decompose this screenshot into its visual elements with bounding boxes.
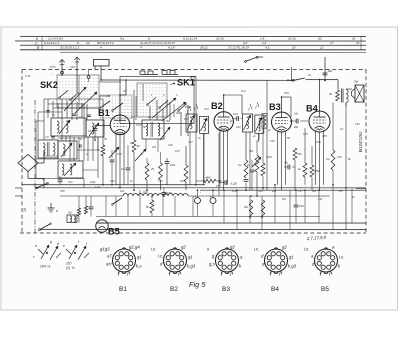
SK1 drop wires	[149, 106, 151, 120]
svg-text:B5: B5	[108, 226, 120, 236]
svg-text:C13: C13	[241, 90, 246, 93]
svg-text:C49: C49	[170, 163, 175, 167]
svg-text:1,0: 1,0	[262, 41, 267, 45]
cap C45	[294, 204, 299, 206]
junction dots	[100, 79, 102, 81]
B3 plate wire	[281, 97, 283, 112]
svg-text:20k: 20k	[293, 126, 299, 129]
wire x246 down	[245, 132, 247, 160]
svg-text:15.16.: 15.16.	[288, 36, 297, 40]
svg-text:17,13,76,,18,19: 17,13,76,,18,19	[228, 45, 249, 49]
dashed border bottom	[20, 232, 366, 234]
table line 4	[20, 49, 366, 51]
coil box A	[51, 118, 86, 136]
svg-text:d: d	[57, 242, 59, 246]
svg-text:g2,g4: g2,g4	[129, 244, 140, 249]
pickup diamond	[18, 154, 38, 171]
res R17	[293, 148, 297, 160]
svg-text:13.16.: 13.16.	[216, 37, 225, 41]
svg-text:•: •	[305, 185, 306, 188]
padder C49	[166, 158, 168, 161]
svg-text:C45: C45	[299, 205, 304, 208]
res R18	[303, 163, 307, 177]
A winding b	[66, 121, 68, 133]
svg-text:18,12: 18,12	[200, 46, 208, 50]
B2 plate wire	[223, 95, 225, 112]
svg-text:49,14: 49,14	[185, 106, 192, 109]
svg-text:SK2: SK2	[40, 80, 58, 90]
res R28	[261, 200, 265, 218]
cap C40	[89, 206, 94, 208]
svg-text:g2: g2	[181, 244, 186, 249]
right edge tick	[356, 188, 366, 190]
svg-text:B2: B2	[211, 101, 223, 111]
dashed border right	[365, 70, 367, 234]
svg-text:C33: C33	[303, 133, 308, 136]
left block verticals	[43, 99, 45, 140]
osc trimmer	[160, 127, 170, 140]
svg-text:0n8: 0n8	[176, 112, 181, 115]
svg-text:ƒ: ƒ	[248, 107, 250, 111]
grid cap C8	[93, 127, 98, 129]
svg-text:g1: g1	[137, 254, 142, 259]
C core	[47, 142, 49, 156]
osc box wires	[145, 139, 147, 150]
svg-text:11,16,17,21,8,12,13,15,17: 11,16,17,21,8,12,13,15,17	[140, 41, 175, 45]
svg-text:C8: C8	[88, 129, 92, 133]
res block right	[262, 114, 267, 129]
wire down from top cap	[324, 57, 326, 80]
E winding b	[70, 164, 72, 175]
bus B y187.8	[36, 187, 366, 189]
svg-text:C47: C47	[318, 198, 323, 201]
svg-text:20: 20	[291, 45, 296, 49]
coil box B	[86, 120, 104, 137]
rectifier B5 bulb	[96, 220, 108, 232]
svg-text:+: +	[194, 195, 196, 199]
wire drop x291	[290, 67, 292, 80]
trimmer C14	[135, 149, 146, 161]
svg-text:68,19,14,7.2: 68,19,14,7.2	[97, 41, 114, 45]
cap C24	[250, 169, 255, 171]
IFT2 box a	[242, 114, 252, 132]
svg-text:110: 110	[66, 261, 72, 265]
svg-text:12,14,5,6,9: 12,14,5,6,9	[48, 37, 63, 41]
svg-text:6,13,16,2,1;: 6,13,16,2,1;	[44, 41, 60, 45]
bus C y190.2	[200, 189, 366, 191]
top filter box	[94, 59, 110, 66]
svg-text:6.: 6.	[148, 37, 151, 41]
left block caps	[46, 109, 50, 111]
IFT drop wires	[189, 132, 191, 185]
cap C60	[323, 72, 328, 74]
SK1 inner wafer	[137, 83, 167, 117]
svg-text:ƒ: ƒ	[187, 109, 189, 113]
svg-text:∅4: ∅4	[45, 136, 49, 139]
left exit ticks	[15, 187, 22, 189]
svg-text:0,2: 0,2	[326, 158, 330, 161]
svg-text:25k: 25k	[271, 190, 277, 193]
long wire x196	[195, 76, 197, 184]
SK2 rotor arm 2	[75, 92, 97, 113]
svg-text:4,3,: 4,3,	[265, 45, 270, 49]
svg-text:B1: B1	[119, 286, 127, 293]
C winding b	[53, 143, 55, 155]
coil box E	[58, 161, 83, 178]
elco C42	[210, 198, 216, 204]
svg-text:18.: 18.	[352, 36, 356, 40]
output transformer secondary	[346, 90, 348, 103]
svg-text:C57: C57	[298, 190, 303, 193]
res R9	[184, 165, 188, 182]
power box	[67, 215, 77, 223]
E winding	[62, 164, 64, 175]
switch diagram 2	[69, 245, 77, 259]
dashed border top	[22, 68, 366, 70]
svg-text:2,0: 2,0	[242, 41, 248, 45]
res R3	[101, 145, 105, 156]
svg-text:20,: 20,	[317, 36, 322, 40]
svg-text:0,5M: 0,5M	[266, 156, 272, 159]
SK2 contact 1	[60, 90, 68, 97]
B1 grid wire	[95, 124, 110, 126]
chassis dash-dot line	[34, 100, 36, 233]
svg-text:g,s: g,s	[209, 262, 216, 267]
svg-text:12: 12	[320, 45, 324, 49]
svg-text:g1: g1	[289, 255, 294, 260]
elco C41	[194, 197, 200, 203]
svg-text:aT: aT	[107, 253, 112, 258]
SK1 rotor arm 2	[162, 102, 186, 121]
SK1 pointer	[173, 83, 175, 85]
svg-text:C26: C26	[168, 144, 173, 147]
res R26	[150, 200, 154, 213]
osc winding a	[146, 123, 148, 136]
SK2 drop wires	[61, 99, 63, 118]
svg-text:220: 220	[119, 190, 125, 193]
B1 plate wire	[119, 95, 121, 115]
svg-text:C18: C18	[204, 108, 209, 111]
svg-text:C25: C25	[270, 140, 275, 143]
B trimmer	[89, 123, 99, 136]
svg-text:0,1: 0,1	[238, 163, 242, 167]
cap on bus	[58, 179, 63, 181]
wire to transformer	[320, 79, 339, 81]
res R2 col	[133, 90, 135, 140]
B1 lower parts	[109, 147, 119, 158]
input jack 1	[61, 71, 64, 74]
svg-text:B1: B1	[98, 108, 110, 118]
svg-text:B4: B4	[306, 104, 319, 114]
svg-text:k,g3: k,g3	[187, 263, 196, 268]
wire shield left	[266, 80, 268, 190]
SK2 contact 3	[100, 101, 110, 108]
svg-text:C58: C58	[338, 190, 343, 193]
speaker wires	[346, 88, 352, 90]
svg-text:8,: 8,	[77, 41, 80, 45]
IFT1 box a	[186, 114, 197, 132]
svg-text:··: ··	[25, 71, 27, 74]
svg-text:0,126: 0,126	[230, 182, 237, 186]
switch diagram 1	[41, 245, 49, 259]
svg-text:2n: 2n	[252, 135, 256, 138]
svg-text:aH: aH	[106, 261, 112, 266]
trimmer 70n	[287, 165, 289, 170]
svg-text:4,2,9: 4,2,9	[168, 45, 175, 49]
svg-text:C36: C36	[316, 141, 321, 144]
SK1 contact 3	[179, 103, 187, 110]
svg-text:204 ⅙: 204 ⅙	[39, 264, 51, 268]
osc coil box	[142, 120, 164, 139]
svg-text:15: 15	[356, 41, 360, 45]
svg-text:20k: 20k	[243, 206, 249, 209]
mains switch on top edge	[245, 61, 247, 63]
svg-text:C44: C44	[143, 191, 148, 194]
res R8	[159, 163, 163, 180]
svg-text:k,g3: k,g3	[288, 264, 297, 269]
antenna 2	[76, 57, 78, 93]
svg-text:n: n	[56, 209, 58, 213]
demod tube B3	[272, 112, 292, 132]
SK2 connect wires	[99, 81, 121, 83]
lower vertical drops	[105, 196, 107, 217]
osc core lines	[150, 122, 152, 137]
tube socket B3	[215, 248, 238, 274]
svg-text:g1: g1	[188, 254, 193, 259]
svg-text:6,3V: 6,3V	[95, 186, 100, 189]
svg-text:10n: 10n	[294, 113, 299, 116]
corner jog	[191, 75, 196, 77]
switch top right	[294, 78, 305, 80]
svg-text:19: 19	[23, 208, 27, 212]
svg-text:C53: C53	[158, 180, 163, 183]
svg-text:C52: C52	[110, 180, 115, 183]
svg-text:20,19,35,3,2,1: 20,19,35,3,2,1	[59, 46, 80, 50]
svg-text:C27: C27	[175, 149, 180, 153]
SK2 contact 4	[113, 103, 123, 110]
top loop coils b	[162, 70, 178, 74]
res R24	[77, 208, 80, 216]
svg-text:i.c.: i.c.	[151, 246, 157, 251]
SK1 outer box	[120, 76, 194, 123]
svg-text:C14: C14	[233, 113, 238, 116]
input jack 2	[87, 76, 90, 79]
svg-text:B10Z10U: B10Z10U	[358, 131, 364, 152]
SK2 wafer divider	[78, 75, 80, 108]
dashed border left	[21, 69, 23, 233]
svg-text:C10: C10	[117, 153, 122, 156]
coil box C	[38, 140, 58, 158]
svg-text:e: e	[63, 244, 65, 248]
svg-text:C35: C35	[322, 135, 327, 138]
table line 3	[20, 44, 366, 46]
svg-text:C50: C50	[60, 190, 65, 193]
svg-text:9,a: 9,a	[120, 37, 125, 41]
tube socket B2	[163, 248, 186, 274]
D trimmer	[61, 143, 72, 157]
heater choke bumps	[123, 193, 188, 196]
OT core	[341, 89, 343, 103]
svg-text:g1g3: g1g3	[100, 246, 110, 251]
res R25	[84, 206, 87, 214]
svg-text:•4W: •4W	[205, 176, 211, 180]
cap C12	[127, 145, 129, 167]
B1 pin wires	[115, 132, 117, 184]
cap C14 mid	[236, 116, 238, 121]
svg-text:B4: B4	[271, 286, 279, 293]
SK2 contact 2	[71, 92, 79, 99]
C winding	[43, 143, 45, 155]
tube socket B1	[112, 248, 135, 274]
A trimmer	[59, 120, 70, 134]
cap C22	[224, 180, 226, 185]
svg-text:C7½: C7½	[50, 65, 56, 69]
bus D y196 left	[60, 195, 123, 197]
mixer tube B1	[110, 115, 130, 135]
wire right x346	[345, 103, 347, 230]
SK1 rotor arm	[152, 98, 176, 118]
svg-text:70n: 70n	[284, 162, 289, 165]
tube socket B5	[314, 248, 337, 274]
SK2 lower wafer	[100, 95, 132, 118]
svg-text:B3: B3	[222, 286, 230, 293]
table line 1	[20, 35, 366, 37]
svg-text:B3: B3	[269, 102, 281, 112]
svg-text:50n: 50n	[312, 190, 317, 193]
output pentode B4	[309, 111, 330, 132]
IFT2 box b	[255, 115, 264, 133]
D winding	[63, 144, 65, 156]
B3 grid box	[262, 113, 267, 128]
svg-text:•: •	[63, 121, 64, 124]
res R7	[145, 163, 149, 180]
SK1 side stipple	[121, 98, 136, 120]
svg-text:C17: C17	[188, 141, 193, 144]
left block horizontals	[44, 98, 103, 100]
svg-text:B5: B5	[321, 286, 329, 293]
wire switch to B4	[306, 79, 320, 81]
svg-text:i.c.: i.c.	[158, 253, 164, 258]
scanner artifact dots	[379, 80, 381, 300]
svg-text:C20: C20	[167, 192, 172, 195]
long wire x204	[203, 133, 205, 181]
table line 2	[15, 40, 366, 42]
switch c	[40, 224, 50, 230]
SK2 rotor arm	[64, 87, 86, 111]
mains switch a	[37, 183, 47, 187]
B4 plate wire	[319, 80, 321, 111]
switch mid	[113, 198, 122, 204]
res R14	[261, 163, 265, 176]
svg-text:C55: C55	[216, 185, 221, 188]
svg-text:0,5M: 0,5M	[314, 170, 319, 173]
svg-text:i.c.: i.c.	[304, 247, 310, 252]
svg-text:B2: B2	[170, 286, 178, 293]
svg-text:C21: C21	[236, 126, 241, 129]
svg-text:ƒ: ƒ	[194, 107, 196, 111]
bus E y216.5	[96, 215, 320, 217]
coil box D	[58, 141, 77, 159]
svg-text:4k7: 4k7	[282, 198, 287, 201]
svg-text:C30: C30	[284, 92, 289, 95]
svg-text:17: 17	[330, 41, 334, 45]
antenna 1	[61, 59, 63, 76]
svg-text:220p: 220p	[89, 181, 96, 184]
svg-text:g: g	[50, 240, 52, 244]
volume pot	[255, 155, 259, 172]
top loop coils a	[140, 71, 158, 75]
svg-text:g2: g2	[282, 245, 287, 250]
res R19	[310, 165, 314, 177]
B winding	[92, 123, 94, 134]
svg-text:C15: C15	[184, 118, 189, 121]
res 4W	[204, 179, 216, 183]
svg-text:4.: 4.	[100, 46, 103, 50]
SK1 contact 1	[148, 97, 156, 104]
svg-text:i.c.: i.c.	[339, 255, 345, 260]
table label column tick	[41, 36, 43, 49]
bus F y223	[96, 222, 366, 224]
long wire x219	[218, 133, 220, 197]
bus D y196 right	[188, 195, 330, 197]
loudspeaker	[355, 85, 364, 102]
osc winding b	[158, 123, 160, 136]
svg-text:i.c.: i.c.	[254, 247, 260, 252]
left block extra wires	[36, 120, 44, 122]
res R27	[249, 200, 253, 218]
svg-text:C43: C43	[70, 65, 75, 69]
svg-text:8,10,11,14: 8,10,11,14	[183, 36, 197, 40]
table line 5	[60, 51, 366, 53]
IFT1 box b	[200, 116, 209, 133]
svg-text:0,1: 0,1	[340, 128, 344, 131]
IF pentode B2	[214, 112, 233, 131]
wire top box down	[100, 66, 102, 80]
B4 pin wires	[314, 130, 316, 185]
SK2 wafer box	[57, 75, 99, 108]
svg-text:(2) ⅙: (2) ⅙	[66, 266, 75, 270]
svg-text:C51: C51	[68, 181, 73, 184]
res R21	[331, 150, 335, 170]
svg-text:4n7: 4n7	[131, 116, 136, 119]
top bus y80	[101, 79, 294, 81]
svg-text:C56: C56	[258, 190, 263, 193]
bus G y229.5	[40, 228, 366, 230]
svg-text:2.8.: 2.8.	[259, 36, 265, 40]
svg-text:a: a	[35, 244, 37, 248]
tube socket B4	[264, 248, 287, 274]
svg-text:C38: C38	[337, 156, 342, 159]
svg-text:k,s: k,s	[136, 263, 142, 268]
wire x259 down	[258, 133, 260, 140]
svg-text:4,8: 4,8	[121, 167, 125, 171]
svg-text:C.: C.	[35, 41, 38, 45]
ground n	[50, 203, 52, 208]
svg-text:•: •	[200, 191, 201, 194]
SK1 contact 2	[160, 100, 168, 107]
svg-text:10μ: 10μ	[328, 69, 333, 73]
B3 pin wires	[276, 131, 278, 185]
svg-text:SK1: SK1	[177, 77, 195, 87]
svg-text:C39: C39	[355, 123, 360, 126]
res R12	[244, 160, 248, 178]
svg-text:ƒ: ƒ	[255, 105, 257, 109]
coupling cap C31	[295, 119, 297, 124]
output transformer primary	[336, 90, 340, 101]
svg-text:5W: 5W	[354, 80, 359, 84]
svg-text:g2: g2	[230, 245, 235, 250]
B2 pin wires	[219, 130, 221, 185]
